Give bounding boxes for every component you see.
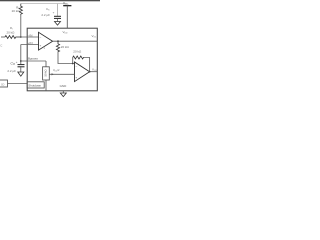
op-amp A1	[39, 32, 53, 50]
ground (GND pin)	[62, 91, 64, 93]
node: -IN junction	[20, 36, 22, 38]
wire: to divider box	[45, 61, 47, 67]
resistor 20 kΩ (vertical, Vo1 to A2 -in)	[56, 41, 59, 52]
shutdown control box	[0, 80, 8, 87]
IC box	[27, 28, 97, 91]
svg-text:VDD/2: VDD/2	[53, 69, 60, 72]
wire: to -IN pin	[16, 36, 39, 38]
wire: feedback left leg	[72, 58, 74, 64]
svg-text:50 kΩ: 50 kΩ	[43, 69, 47, 76]
resistor RF (20 kΩ, vertical, top-left)	[19, 4, 22, 15]
wire: bypass pin	[21, 60, 46, 62]
top border bar	[0, 0, 100, 1]
wire: VDD/2 bias to A2 +	[50, 73, 75, 75]
svg-text:C: C	[0, 44, 2, 48]
capacitor CB (bypass)	[18, 64, 25, 66]
op-amp A2	[75, 62, 90, 82]
wire: down and right to A2 -in	[58, 52, 75, 64]
resistor 20 kΩ (feedback of A2, horizontal)	[73, 56, 84, 59]
svg-text:GND: GND	[60, 84, 68, 88]
wire: Vo1 output	[53, 40, 98, 42]
background	[0, 0, 100, 100]
svg-text:2.2 µF: 2.2 µF	[41, 13, 50, 17]
wire: VDD rail	[21, 3, 68, 5]
svg-text:20 kΩ: 20 kΩ	[73, 50, 82, 54]
wire: shutdown pin	[8, 83, 28, 85]
ground (below CS)	[57, 19, 59, 22]
wire: audio input	[1, 36, 5, 38]
wire: RF to -IN node	[20, 15, 22, 37]
wire: +IN down to bypass node	[20, 45, 22, 65]
svg-text:+: +	[40, 44, 42, 48]
wire: +IN pin	[21, 44, 39, 46]
svg-text:20 kΩ: 20 kΩ	[61, 45, 70, 49]
ground (below CB)	[20, 67, 22, 72]
svg-text:CB: CB	[10, 62, 15, 67]
internal resistor divider block	[43, 67, 50, 80]
svg-text:Shutdown: Shutdown	[28, 84, 41, 88]
svg-text:+: +	[75, 76, 77, 80]
svg-text:–IN: –IN	[28, 33, 33, 37]
svg-text:+: +	[53, 10, 55, 14]
wire: divider to ground rail	[45, 80, 47, 91]
shutdown block	[27, 82, 44, 88]
svg-text:2.2 µF: 2.2 µF	[7, 69, 16, 73]
node Vo1	[57, 40, 59, 42]
svg-text:20 kΩ: 20 kΩ	[12, 9, 21, 13]
wire: VDD stem to box	[66, 6, 68, 29]
svg-text:Bypass: Bypass	[28, 56, 38, 60]
capacitor CS (supply bypass)	[57, 4, 59, 16]
svg-text:20 kΩ: 20 kΩ	[7, 30, 16, 34]
resistor RI (20 kΩ, series input)	[5, 36, 21, 39]
svg-text:+IN: +IN	[28, 41, 33, 45]
svg-text:+: +	[16, 60, 18, 64]
wire: feedback right leg to output	[83, 58, 90, 72]
wire: Vo2 output	[90, 71, 98, 73]
svg-text:SD: SD	[1, 84, 5, 87]
